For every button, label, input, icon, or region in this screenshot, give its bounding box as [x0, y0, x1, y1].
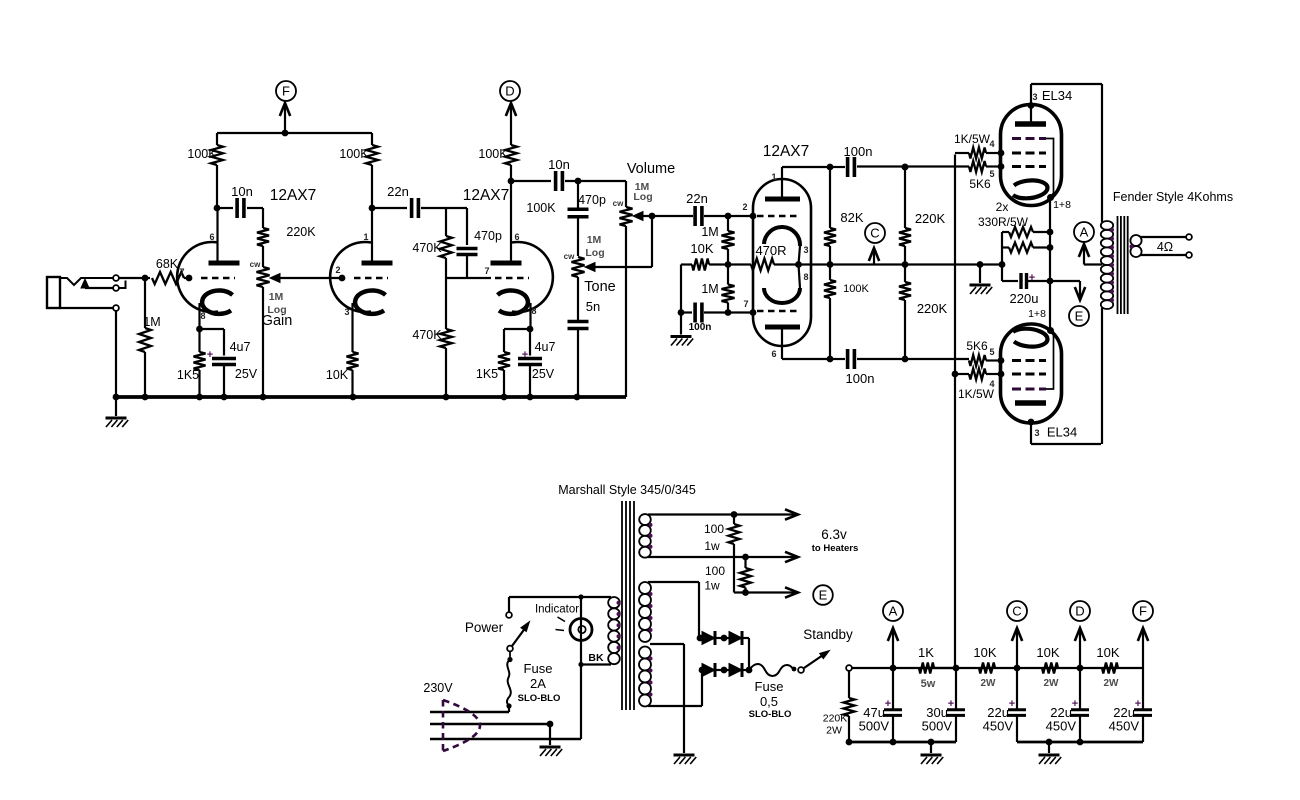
svg-text:C: C [870, 226, 879, 241]
svg-text:100: 100 [704, 522, 724, 536]
svg-text:Fender Style 4Kohms: Fender Style 4Kohms [1113, 190, 1233, 204]
svg-text:1+8: 1+8 [1028, 308, 1046, 320]
svg-text:82K: 82K [840, 210, 863, 225]
svg-text:220K: 220K [915, 211, 946, 226]
svg-text:+: + [1072, 698, 1078, 710]
svg-text:SLO-BLO: SLO-BLO [518, 693, 561, 704]
svg-text:A: A [1080, 225, 1089, 240]
svg-text:Power: Power [465, 620, 504, 635]
svg-text:100K: 100K [339, 147, 369, 161]
svg-text:1M: 1M [269, 291, 284, 303]
svg-text:C: C [1012, 604, 1021, 619]
svg-text:470K: 470K [412, 241, 442, 255]
svg-text:Tone: Tone [584, 279, 615, 295]
svg-text:25V: 25V [532, 367, 555, 381]
svg-text:1K5: 1K5 [177, 368, 199, 382]
svg-text:10K: 10K [1096, 645, 1119, 660]
svg-text:3: 3 [803, 245, 808, 255]
svg-text:Marshall Style 345/0/345: Marshall Style 345/0/345 [558, 483, 696, 497]
svg-text:7: 7 [743, 299, 748, 309]
svg-text:100n: 100n [846, 371, 875, 386]
svg-text:2W: 2W [826, 725, 842, 737]
svg-text:100K: 100K [843, 283, 869, 295]
svg-text:1+8: 1+8 [1053, 199, 1071, 211]
svg-text:25V: 25V [235, 367, 258, 381]
svg-text:3: 3 [344, 307, 349, 317]
svg-text:1K/5W: 1K/5W [954, 132, 991, 146]
svg-text:2A: 2A [530, 676, 546, 691]
svg-text:Standby: Standby [803, 627, 853, 642]
svg-text:Log: Log [585, 247, 604, 259]
svg-text:1M: 1M [701, 225, 718, 239]
svg-text:8: 8 [531, 306, 536, 316]
svg-text:6.3v: 6.3v [821, 527, 847, 542]
svg-text:22n: 22n [686, 191, 708, 206]
svg-text:1w: 1w [704, 579, 720, 593]
svg-text:470p: 470p [474, 229, 502, 243]
svg-text:D: D [1075, 604, 1084, 619]
svg-text:F: F [1139, 604, 1147, 619]
svg-text:100K: 100K [187, 147, 217, 161]
svg-text:E: E [819, 588, 828, 603]
svg-text:F: F [282, 84, 290, 99]
svg-text:+: + [207, 349, 213, 361]
svg-text:2W: 2W [1104, 678, 1120, 689]
svg-text:1: 1 [771, 172, 776, 182]
svg-text:4u7: 4u7 [230, 340, 251, 354]
svg-text:2: 2 [742, 202, 747, 212]
svg-text:22n: 22n [387, 184, 409, 199]
svg-text:2x: 2x [996, 200, 1009, 214]
svg-text:100n: 100n [689, 322, 712, 333]
svg-text:E: E [1075, 309, 1084, 324]
svg-text:+: + [1135, 698, 1141, 710]
svg-text:8: 8 [803, 272, 808, 282]
svg-text:+: + [1029, 272, 1035, 284]
svg-text:0,5: 0,5 [760, 694, 778, 709]
svg-text:100K: 100K [478, 147, 508, 161]
svg-text:470K: 470K [412, 328, 442, 342]
svg-text:12AX7: 12AX7 [270, 187, 317, 204]
svg-text:4Ω: 4Ω [1157, 240, 1173, 254]
svg-text:1: 1 [363, 232, 368, 242]
svg-text:10K: 10K [1036, 645, 1059, 660]
svg-text:1M: 1M [701, 282, 718, 296]
svg-text:10n: 10n [548, 157, 570, 172]
svg-text:4: 4 [989, 139, 994, 149]
svg-text:4u7: 4u7 [535, 340, 556, 354]
svg-text:Volume: Volume [627, 161, 675, 177]
svg-text:10n: 10n [231, 184, 253, 199]
svg-text:450V: 450V [1046, 719, 1077, 734]
svg-text:D: D [505, 84, 514, 99]
svg-text:10K: 10K [973, 645, 996, 660]
svg-text:12AX7: 12AX7 [463, 187, 510, 204]
svg-text:+: + [948, 698, 954, 710]
svg-text:EL34: EL34 [1042, 88, 1072, 103]
svg-text:2W: 2W [981, 678, 997, 689]
svg-text:100K: 100K [526, 201, 556, 215]
svg-text:220u: 220u [1010, 291, 1039, 306]
svg-text:cw: cw [564, 252, 575, 261]
svg-text:5w: 5w [921, 678, 936, 690]
svg-text:500V: 500V [922, 719, 953, 734]
svg-text:5K6: 5K6 [969, 177, 991, 191]
svg-text:1M: 1M [587, 234, 602, 246]
svg-text:EL34: EL34 [1047, 425, 1077, 440]
svg-text:Fuse: Fuse [524, 661, 553, 676]
svg-text:8: 8 [200, 311, 205, 321]
svg-text:+: + [885, 698, 891, 710]
svg-text:2W: 2W [1044, 678, 1060, 689]
svg-text:BK: BK [588, 652, 604, 664]
svg-text:5n: 5n [586, 299, 600, 314]
svg-text:100: 100 [705, 564, 725, 578]
svg-text:6: 6 [209, 232, 214, 242]
svg-text:7: 7 [484, 266, 489, 276]
svg-text:1K/5W: 1K/5W [958, 387, 995, 401]
svg-text:Gain: Gain [262, 313, 293, 329]
svg-text:5: 5 [989, 347, 994, 357]
svg-text:2: 2 [335, 265, 340, 275]
svg-text:500V: 500V [859, 719, 890, 734]
svg-text:+: + [522, 349, 528, 361]
svg-text:68K: 68K [156, 257, 179, 271]
svg-text:1K: 1K [918, 645, 934, 660]
svg-text:to Heaters: to Heaters [812, 543, 858, 554]
svg-text:+: + [1009, 698, 1015, 710]
svg-text:cw: cw [250, 260, 261, 269]
svg-text:450V: 450V [983, 719, 1014, 734]
svg-text:6: 6 [771, 349, 776, 359]
svg-text:450V: 450V [1109, 719, 1140, 734]
svg-text:3: 3 [1032, 92, 1037, 102]
svg-text:5K6: 5K6 [966, 339, 988, 353]
svg-text:cw: cw [613, 199, 624, 208]
svg-text:Indicator: Indicator [535, 604, 579, 616]
svg-text:470R: 470R [755, 243, 786, 258]
svg-text:220K: 220K [917, 301, 948, 316]
svg-text:Fuse: Fuse [755, 679, 784, 694]
svg-text:A: A [889, 604, 898, 619]
svg-text:100n: 100n [844, 144, 873, 159]
svg-text:SLO-BLO: SLO-BLO [749, 709, 792, 720]
svg-text:Log: Log [633, 191, 652, 203]
svg-text:330R/5W: 330R/5W [978, 215, 1029, 229]
svg-text:220K: 220K [286, 225, 316, 239]
svg-text:3: 3 [1034, 428, 1039, 438]
svg-text:1K5: 1K5 [476, 367, 498, 381]
svg-text:7: 7 [179, 267, 184, 277]
svg-text:6: 6 [514, 232, 519, 242]
svg-text:470p: 470p [578, 193, 606, 207]
svg-text:10K: 10K [326, 368, 349, 382]
svg-text:230V: 230V [423, 681, 453, 695]
svg-text:10K: 10K [690, 241, 713, 256]
svg-text:1w: 1w [704, 539, 720, 553]
svg-text:220K: 220K [823, 713, 848, 725]
svg-text:12AX7: 12AX7 [763, 143, 810, 160]
